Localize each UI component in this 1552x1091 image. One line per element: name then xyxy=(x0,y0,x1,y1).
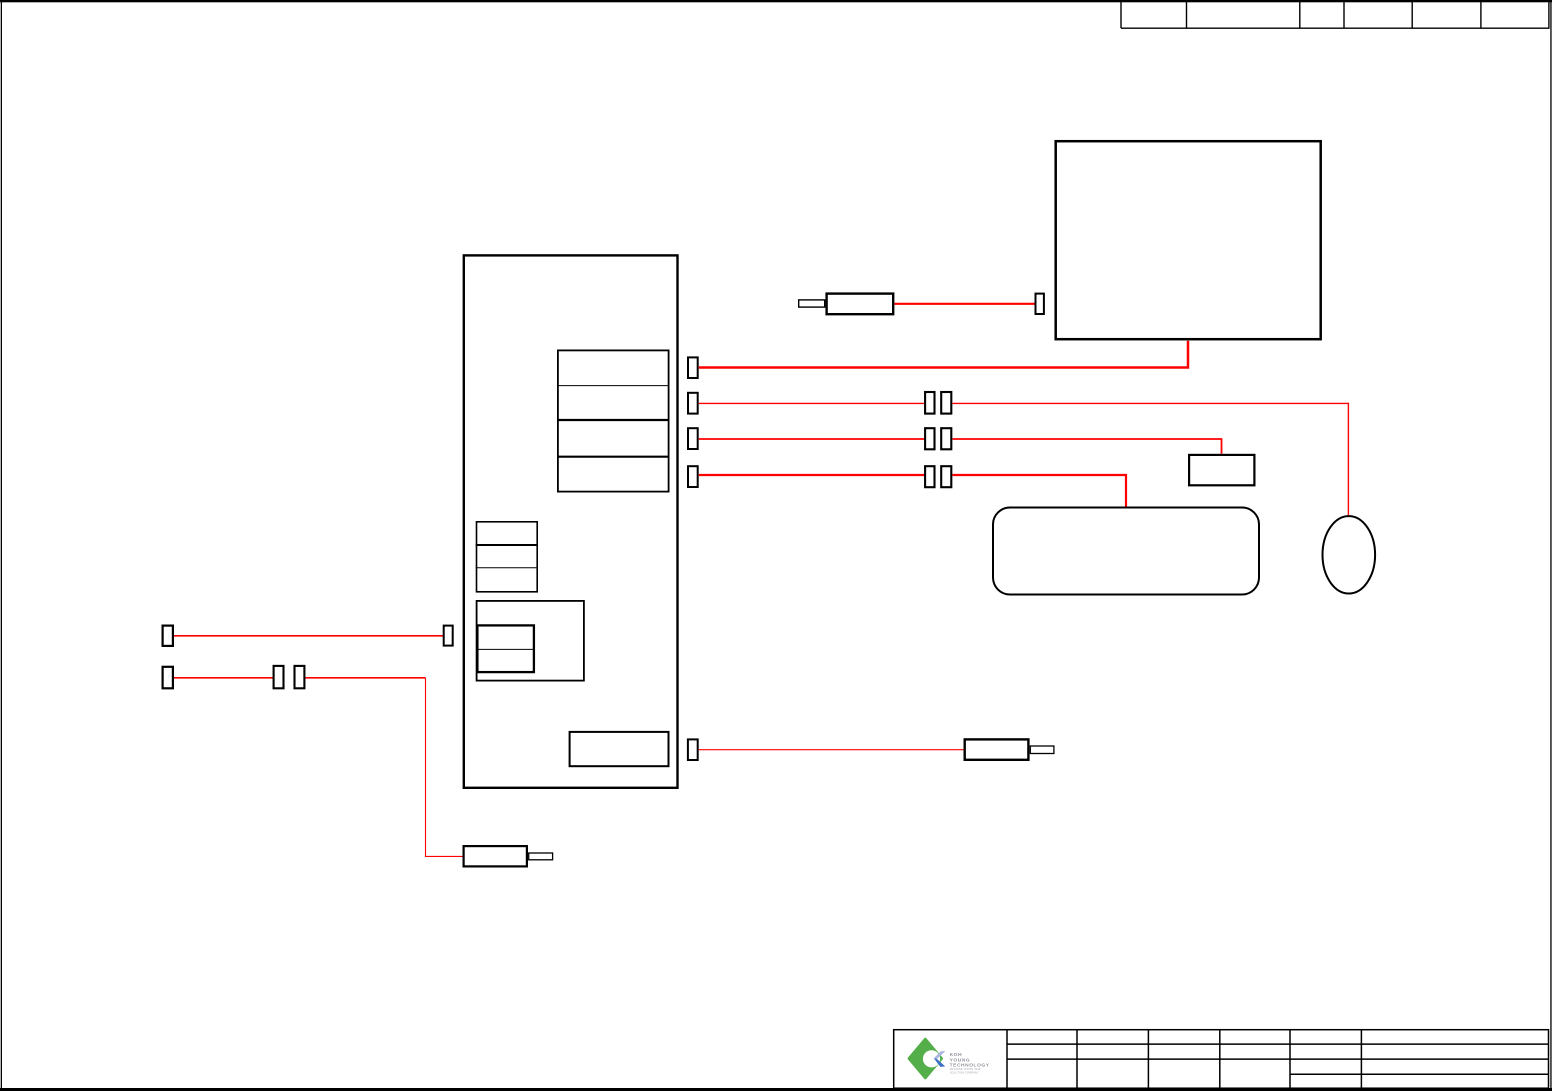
wire W2b xyxy=(953,403,1349,516)
svg-text:MACHINE VISION INSP: MACHINE VISION INSP xyxy=(950,1068,981,1071)
power module inner box xyxy=(476,625,535,672)
connector L1 xyxy=(163,626,173,646)
monitor box B1 xyxy=(1056,141,1321,339)
connector J0 xyxy=(1036,294,1044,314)
connector C5 xyxy=(444,626,453,646)
plug P2 body xyxy=(464,846,527,866)
plug P3 body xyxy=(965,739,1029,759)
title block xyxy=(894,1029,1549,1088)
connector L3a xyxy=(274,666,284,688)
wire W6c xyxy=(426,678,463,857)
logo tagline xyxy=(950,1068,981,1075)
page border right xyxy=(1550,0,1551,1091)
svg-text:KOH: KOH xyxy=(950,1052,963,1058)
plug P1 body xyxy=(827,294,894,315)
wire W1 xyxy=(699,341,1188,368)
wire W6b xyxy=(305,677,425,679)
connector E2 xyxy=(688,393,698,414)
io box xyxy=(570,732,669,766)
connector K2a xyxy=(925,428,934,449)
power module outer box xyxy=(477,601,584,681)
trackball ellipse xyxy=(1323,516,1376,593)
main unit box M xyxy=(464,255,678,787)
wire W3a xyxy=(699,438,925,440)
connector K1b xyxy=(941,392,951,414)
wire W4b xyxy=(953,475,1127,507)
page border left xyxy=(1,0,2,1091)
connector L3b xyxy=(295,666,305,688)
wire W3b xyxy=(953,439,1222,454)
plug P2 pin xyxy=(529,853,553,860)
stack box (3 rows) xyxy=(476,522,538,592)
wire W2a xyxy=(699,402,925,404)
plug P3 pin xyxy=(1030,746,1054,754)
connector E5 xyxy=(688,739,698,760)
logo circle xyxy=(923,1050,940,1067)
svg-text:SOLUTION COMPANY: SOLUTION COMPANY xyxy=(950,1072,979,1075)
logo diamond xyxy=(909,1039,942,1078)
wire W6a xyxy=(174,677,273,679)
wire W5 xyxy=(174,635,443,637)
connector K2b xyxy=(941,428,951,449)
wire W4a xyxy=(699,474,925,476)
logo chevron dark xyxy=(934,1058,945,1067)
connector K3a xyxy=(925,466,934,487)
revision table top-right xyxy=(1121,2,1550,28)
connector L2 xyxy=(163,667,173,689)
wire W0 xyxy=(895,303,1036,305)
svg-text:YOUNG: YOUNG xyxy=(950,1057,971,1063)
card cage box (4 rows) xyxy=(557,350,670,491)
connector E3 xyxy=(688,428,698,449)
wire W7 xyxy=(699,749,964,751)
connector K1a xyxy=(925,392,934,414)
keyboard rounded box xyxy=(993,508,1259,595)
connector E4 xyxy=(688,466,698,487)
plug P1 pin xyxy=(799,300,825,307)
logo text xyxy=(950,1052,990,1068)
page border top xyxy=(0,0,1552,2)
box B2 xyxy=(1189,455,1254,485)
connector E1 xyxy=(688,357,698,378)
logo chevron light xyxy=(934,1051,946,1059)
page border bottom xyxy=(0,1088,1552,1091)
connector K3b xyxy=(941,466,951,487)
